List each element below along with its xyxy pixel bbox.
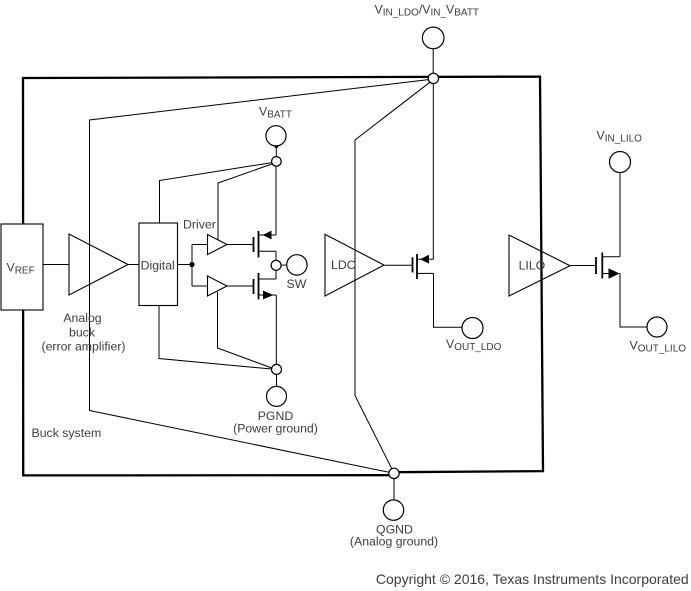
label: Buck system [32,426,102,440]
svg-text:Copyright © 2016, Texas Instru: Copyright © 2016, Texas Instruments Inco… [376,571,689,587]
label: Driver [183,217,216,231]
block: VREF [1,224,43,310]
wire: VREF to error amplifier input [43,264,69,266]
pin: VOUT_LDO terminal [446,318,502,354]
transistor: LILO pass FET [570,253,620,279]
op-amp: buck error amplifier [69,234,128,295]
svg-text:LDO: LDO [331,258,356,272]
pin: VIN_LILO terminal [597,129,643,173]
svg-text:buck: buck [69,325,96,339]
node: QGND junction on chip boundary [389,468,399,478]
chip boundary rectangle (Buck system block) [23,77,543,476]
wire: bottom driver buffer output to NMOS gate [227,285,254,287]
wire: VIN node down to LDO pass FET source [432,84,434,259]
wire: VIN node to buck feedback (left rail) down to QGND node [90,80,429,473]
wire: Digital block ground to PGND node [159,306,272,370]
svg-text:(Power ground): (Power ground) [233,421,318,435]
svg-text:Digital: Digital [141,259,175,273]
node: VBATT junction [272,157,282,167]
wire: driver node branch to both driver buffers [192,245,208,287]
wire: LILO FET drain to VOUT_LILO pin [620,274,647,328]
node: VIN junction on chip boundary [428,73,438,83]
wire: VBATT pin stem [275,146,277,157]
wire: QGND pin stem [393,479,395,500]
buffer: top gate driver [208,235,228,255]
transistor: buck low-side NMOS [254,269,277,364]
svg-text:Buck system: Buck system [32,426,102,440]
amplifier: LDO [325,234,384,296]
node: dot on VBATT stem [274,144,278,148]
label: Analog buck (error amplifier) [41,311,125,353]
amplifier: LILO [509,235,570,296]
wire: bottom driver buffer ground to PGND node [218,292,272,368]
wire: Digital output to driver node [178,264,193,266]
svg-text:(error amplifier): (error amplifier) [41,339,125,353]
svg-text:LILO: LILO [519,259,546,273]
wire: SW node to SW pin [281,264,287,266]
pin: VOUT_LILO terminal [630,317,687,355]
wire: error amplifier output to Digital [128,264,139,266]
pin: QGND terminal [350,500,438,548]
block: Digital [139,223,178,306]
wire: VBATT node down to buck PMOS source [275,166,277,235]
svg-text:Analog: Analog [63,311,101,325]
node: PGND junction [272,364,282,374]
wire: VBATT node to Digital block top [160,163,272,223]
svg-text:(Analog ground): (Analog ground) [350,534,438,548]
node: SW junction [271,260,281,270]
svg-text:SW: SW [287,277,307,291]
svg-text:Driver: Driver [183,217,216,231]
wire: VIN node to LDO rail down to QGND node [355,82,430,469]
wire: VIN_LILO pin to LILO FET source [619,173,621,257]
pin: VIN_LDO/VIN_VBATT terminal [375,2,480,73]
wire: VBATT node to top driver buffer supply [218,164,272,240]
buffer: bottom gate driver [208,276,228,296]
node: driver input junction dot [189,262,194,267]
pin: VBATT terminal [259,105,292,146]
wire: LDO FET drain to VOUT_LDO pin [434,273,463,327]
transistor: buck high-side PMOS [254,231,277,261]
label: copyright [376,571,689,587]
pin: PGND terminal [233,375,318,436]
wire: top driver buffer output to PMOS gate [227,244,254,246]
transistor: LDO pass PMOS [384,254,434,279]
pin: SW terminal [287,255,308,291]
